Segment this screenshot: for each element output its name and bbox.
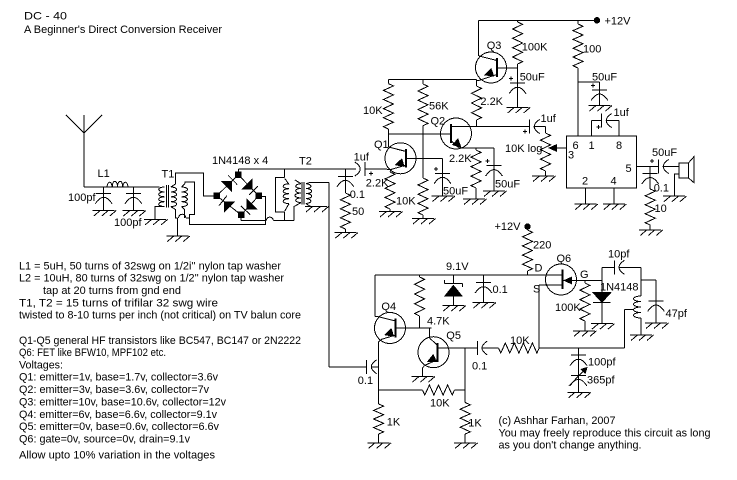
diode D2 <box>243 180 258 195</box>
capacitor 50uF Q3 base <box>509 68 526 108</box>
transistor Q6 JFET <box>546 264 578 295</box>
svg-text:2.2K: 2.2K <box>449 153 472 165</box>
wire decoupling branch <box>578 81 600 83</box>
wire L2 to ground <box>640 318 642 335</box>
wire T1 secA bottom center tap <box>171 207 178 236</box>
ground <box>507 108 530 114</box>
label 10K vfo <box>510 335 530 347</box>
notes text block <box>19 260 301 461</box>
ground <box>573 331 597 337</box>
wire cap to pin8 <box>606 121 619 136</box>
svg-text:L1: L1 <box>98 168 110 180</box>
svg-text:56K: 56K <box>429 101 449 113</box>
resistor 2.2K Q3 emitter <box>472 86 482 127</box>
capacitor 47pf <box>648 301 665 323</box>
label 10pf <box>608 249 630 261</box>
svg-text:Q5: emitter=0v, base=0.6v, col: Q5: emitter=0v, base=0.6v, collector=6.6… <box>19 421 219 433</box>
svg-text:0.1: 0.1 <box>350 189 365 201</box>
svg-text:G: G <box>580 269 589 281</box>
wire pin4 ground <box>613 188 615 204</box>
wire Q2 collector <box>468 126 530 128</box>
wire T2 box <box>275 177 284 220</box>
svg-text:Q6: FET like BFW10, MPF102 etc: Q6: FET like BFW10, MPF102 etc. <box>19 347 166 359</box>
wire T2 windingB bottom <box>294 203 301 221</box>
wire Q6 source <box>539 285 546 348</box>
svg-text:1uf: 1uf <box>614 107 630 119</box>
svg-text:100pf: 100pf <box>68 192 96 204</box>
transformer T2 core <box>302 182 304 205</box>
resistor 56K <box>418 79 428 178</box>
svg-text:Q1: Q1 <box>374 139 389 151</box>
svg-text:4.7K: 4.7K <box>427 316 450 328</box>
wire Q1 collector up <box>387 129 389 147</box>
diode 1N4148 vfo <box>593 281 610 324</box>
ground <box>166 236 190 242</box>
ground <box>483 191 507 197</box>
resistor 100K gate <box>580 281 590 331</box>
ground <box>663 196 687 202</box>
label 50uF Q2 <box>495 179 520 191</box>
wire pin1 up <box>592 121 602 136</box>
label 100pf #1 <box>68 192 96 204</box>
wire T1 secA top to bridge left <box>171 173 216 196</box>
svg-text:twisted to 8-10 turns per inch: twisted to 8-10 turns per inch (not crit… <box>19 310 301 322</box>
svg-text:9.1V: 9.1V <box>446 261 469 273</box>
transformer T2 winding C <box>306 184 312 204</box>
diode D1 <box>222 176 237 191</box>
capacitor 100pf #1 <box>95 187 112 211</box>
ground <box>645 323 669 329</box>
svg-text:1N4148: 1N4148 <box>600 282 639 294</box>
wire T2 windingA bottom <box>285 204 289 211</box>
svg-text:10pf: 10pf <box>608 249 630 261</box>
label 0.1 Q5 base <box>472 361 487 373</box>
svg-text:50uF: 50uF <box>443 186 468 198</box>
label S <box>533 284 540 296</box>
pin 4 label <box>611 176 617 188</box>
svg-text:50uF: 50uF <box>592 72 617 84</box>
resistor 1K Q5 <box>460 403 470 443</box>
label Q6 <box>557 253 572 265</box>
label +12V vfo <box>495 221 522 233</box>
label 100K gate <box>555 302 581 314</box>
label 365pf tuning <box>587 375 615 387</box>
svg-text:1uf: 1uf <box>354 152 370 164</box>
svg-text:T1, T2 = 15 turns of trifilar: T1, T2 = 15 turns of trifilar 32 swg wir… <box>19 297 218 309</box>
svg-text:365pf: 365pf <box>587 375 615 387</box>
label T2 <box>299 156 312 168</box>
resistor 100 <box>573 20 583 68</box>
wire pin2 ground <box>584 188 586 204</box>
label 220 <box>533 240 551 252</box>
wire T2 link top <box>283 169 285 177</box>
wire L2 tap <box>625 310 633 349</box>
svg-text:Q3: Q3 <box>487 40 502 52</box>
wire T1 secB bottom <box>182 207 185 218</box>
label 1uf pins 1-8 <box>614 107 630 119</box>
svg-text:Allow upto 10% variation in th: Allow upto 10% variation in the voltages <box>19 450 216 462</box>
svg-text:+12V: +12V <box>495 221 522 233</box>
variable cap arrow <box>569 368 587 387</box>
svg-text:10K: 10K <box>430 398 450 410</box>
svg-text:1N4148 x 4: 1N4148 x 4 <box>212 155 268 167</box>
svg-text:Q4: emitter=6v, base=6.6v, col: Q4: emitter=6v, base=6.6v, collector=9.1… <box>19 409 217 421</box>
transformer T1 secondary winding B <box>182 187 188 207</box>
capacitor 50uF output <box>650 159 669 174</box>
svg-text:Q6: gate=0v, source=0v, drain=: Q6: gate=0v, source=0v, drain=9.1v <box>19 434 190 446</box>
svg-text:4: 4 <box>611 176 617 188</box>
resistor 220 <box>523 227 533 275</box>
label 4.7K <box>427 316 450 328</box>
label G <box>580 269 589 281</box>
label 100K Q3 <box>522 42 548 54</box>
svg-text:3: 3 <box>568 150 574 162</box>
pot wiper arrow <box>549 145 566 151</box>
svg-text:0.1: 0.1 <box>472 361 487 373</box>
capacitor 50uF Q1 base <box>434 167 451 196</box>
svg-text:1: 1 <box>589 140 595 152</box>
svg-text:You may freely reproduce this: You may freely reproduce this circuit as… <box>499 427 711 439</box>
wire T1 secB top loop <box>182 182 195 218</box>
svg-text:2.2K: 2.2K <box>480 96 503 108</box>
inductor L2 <box>634 296 641 318</box>
ground <box>603 204 627 210</box>
wire bridge edge top-right <box>238 175 258 196</box>
svg-text:Voltages:: Voltages: <box>19 359 63 371</box>
ground <box>412 219 436 225</box>
wire bias rail <box>388 78 476 80</box>
transformer T1 primary winding <box>159 187 165 207</box>
resistor 50 <box>340 193 350 233</box>
label Q4 <box>381 301 396 313</box>
ground <box>574 204 598 210</box>
wire pin5 out <box>637 166 659 168</box>
wire Q4 base <box>396 327 432 329</box>
wire 1uf to pot <box>534 127 545 134</box>
svg-text:+12V: +12V <box>605 16 632 28</box>
capacitor 0.1 Q5 base <box>465 341 498 355</box>
label 100 <box>583 44 601 56</box>
svg-text:as you don't change anything.: as you don't change anything. <box>499 440 642 452</box>
pin 6 label <box>573 140 579 152</box>
svg-text:50uF: 50uF <box>652 147 677 159</box>
node bridge left <box>214 193 220 199</box>
ground <box>454 443 478 449</box>
pin 2 label <box>582 176 588 188</box>
pin 5 label <box>626 163 632 175</box>
wire T2 windingA top <box>285 179 289 185</box>
label 50uF Q1 <box>443 186 468 198</box>
svg-text:10K: 10K <box>363 105 383 117</box>
wire bridge edge right-bottom <box>241 196 258 215</box>
wire antenna to T1 <box>84 186 160 188</box>
svg-text:Q3: emitter=10v, base=10.6v, c: Q3: emitter=10v, base=10.6v, collector=1… <box>19 396 226 408</box>
wire speaker ground <box>675 174 679 196</box>
ground <box>144 219 168 225</box>
ground <box>334 233 358 239</box>
ground <box>305 207 329 213</box>
transistor Q1 <box>385 143 416 174</box>
wire Q4 collector <box>375 275 377 317</box>
svg-text:100K: 100K <box>555 302 581 314</box>
wire T2 windingC bottom <box>306 204 311 207</box>
svg-text:DC - 40: DC - 40 <box>24 11 67 23</box>
transistor Q4 <box>375 313 406 344</box>
wire Q6 gate <box>577 280 602 282</box>
wire 50uF to speaker <box>663 166 679 168</box>
zener diode 9.1V <box>444 275 462 306</box>
capacitor 0.1 input <box>337 169 354 193</box>
label +12V <box>605 16 632 28</box>
label 0.1 output <box>654 183 669 195</box>
wire 1uf to Q1 emitter <box>365 168 392 170</box>
capacitor 1uf pins 1-8 <box>597 114 612 129</box>
capacitor 1uf input <box>355 162 373 176</box>
pin 3 label <box>568 150 574 162</box>
ground <box>432 196 456 202</box>
svg-text:5: 5 <box>626 163 632 175</box>
svg-text:T2: T2 <box>299 156 312 168</box>
node +12V vfo <box>524 223 530 229</box>
svg-text:L1 = 5uH, 50 turns of 32swg on: L1 = 5uH, 50 turns of 32swg on 1/2i'' ny… <box>19 260 281 272</box>
transformer T2 winding B <box>295 180 301 203</box>
label L1 <box>98 168 110 180</box>
svg-text:0.1: 0.1 <box>493 284 508 296</box>
resistor 10K feedback <box>379 385 466 395</box>
ground <box>591 324 615 330</box>
svg-text:A Beginner's Direct Conversion: A Beginner's Direct Conversion Receiver <box>24 24 222 36</box>
capacitor 50uF Q2 emitter <box>486 148 503 191</box>
ground <box>412 377 436 383</box>
capacitor 1uf Q2 out <box>523 120 540 134</box>
resistor 100K Q3 <box>513 20 523 68</box>
label 50 <box>352 206 364 218</box>
ground <box>442 306 466 312</box>
label 10K feedback <box>430 398 450 410</box>
capacitor 365pf tuning <box>570 375 587 392</box>
wire 9.1V rail <box>375 274 562 276</box>
ground <box>630 335 654 341</box>
wire Q3 base <box>497 67 518 69</box>
svg-text:220: 220 <box>533 240 551 252</box>
svg-text:T1: T1 <box>162 169 175 181</box>
wire Q5 emitter <box>423 366 425 377</box>
svg-text:8: 8 <box>616 140 622 152</box>
ground <box>589 106 613 112</box>
svg-text:Q1: emitter=1v, base=1.7v, col: Q1: emitter=1v, base=1.7v, collector=3.6… <box>19 372 218 384</box>
label 10 <box>655 203 667 215</box>
resistor 10K vfo <box>499 343 540 353</box>
wire bridge bottom to T2 <box>241 215 294 221</box>
ground <box>122 211 145 217</box>
ground <box>463 199 487 205</box>
wire hop <box>179 214 190 218</box>
resistor 1K Q4 <box>374 404 384 443</box>
ground <box>93 211 117 217</box>
label 2.2K Q1 <box>366 178 389 190</box>
label Q1 <box>374 139 389 151</box>
ground <box>473 303 497 309</box>
label 50uF output <box>652 147 677 159</box>
svg-text:D: D <box>535 263 543 275</box>
label 1uf input <box>354 152 370 164</box>
title text <box>24 11 222 37</box>
label 0.1 rail <box>493 284 508 296</box>
label 1K Q4 <box>387 417 401 429</box>
svg-text:Q4: Q4 <box>381 301 396 313</box>
diode D4 <box>219 196 234 212</box>
node bridge top <box>235 172 241 178</box>
svg-text:50: 50 <box>352 206 364 218</box>
svg-text:10K log: 10K log <box>505 143 542 155</box>
label 1N4148 x 4 <box>212 155 268 167</box>
wire bridge top to audio takeoff <box>238 169 356 175</box>
pin 1 label <box>589 140 595 152</box>
capacitor 100pf tuning <box>570 348 587 375</box>
label Q3 <box>487 40 502 52</box>
transistor Q5 <box>418 337 449 368</box>
svg-text:1uf: 1uf <box>541 113 557 125</box>
label 1uf Q2 out <box>541 113 557 125</box>
svg-text:2.2K: 2.2K <box>366 178 389 190</box>
transformer T1 core <box>167 185 169 208</box>
svg-text:10K: 10K <box>396 196 416 208</box>
wire T2 windingC top to VFO <box>306 183 329 367</box>
wire +12V rail <box>478 19 597 21</box>
label 100pf #2 <box>114 217 142 229</box>
node bridge bottom <box>238 212 244 218</box>
wire Q1 emitter down <box>390 169 392 172</box>
capacitor 0.1 rail bypass <box>475 275 492 303</box>
wire bridge edge left-top <box>217 175 239 196</box>
wire gate to 10pf <box>602 267 615 280</box>
resistor 2.2K Q1 emitter <box>385 172 395 212</box>
wire Q5 collector <box>429 328 431 338</box>
ground <box>532 176 556 182</box>
diode D3 <box>241 199 256 214</box>
svg-text:100: 100 <box>583 44 601 56</box>
label 10K divider <box>396 196 416 208</box>
transformer T1 secondary winding A <box>171 187 177 207</box>
resistor 4.7K <box>415 275 425 328</box>
resistor 10K Q1 load <box>383 79 393 129</box>
wire Q3 emitter <box>477 79 480 86</box>
label 100pf tuning <box>588 357 616 369</box>
ground <box>568 392 592 398</box>
ground <box>639 230 663 236</box>
svg-text:Q2: emitter=3v, base=3.6v, col: Q2: emitter=3v, base=3.6v, collector=7v <box>19 384 209 396</box>
copyright text block <box>499 415 711 452</box>
wire 10pf to tank <box>619 267 641 296</box>
label D <box>535 263 543 275</box>
label 56K <box>429 101 449 113</box>
op-amp U1 LM386 box <box>567 136 637 188</box>
transistor Q2 <box>441 118 472 149</box>
svg-text:Q5: Q5 <box>446 330 461 342</box>
label Q2 <box>431 116 446 128</box>
svg-text:2: 2 <box>582 176 588 188</box>
speaker <box>679 157 694 183</box>
label 1K Q5 <box>468 418 482 430</box>
node +12V <box>594 17 600 23</box>
svg-text:Q2: Q2 <box>431 116 446 128</box>
label 10K Q1 load <box>363 105 383 117</box>
svg-text:1K: 1K <box>468 418 482 430</box>
svg-text:Q6: Q6 <box>557 253 572 265</box>
resistor 10 <box>645 189 655 230</box>
wire Q2 emitter <box>459 147 494 149</box>
label Q5 <box>446 330 461 342</box>
wire Q4 emitter down <box>379 340 381 405</box>
capacitor 10pf <box>614 260 624 274</box>
wire Q1 collector to Q2 base <box>388 133 451 135</box>
wire T1 primary to ground <box>155 207 164 220</box>
resistor 10K divider <box>418 178 428 219</box>
capacitor 0.1 vfo out <box>329 360 379 374</box>
svg-text:47pf: 47pf <box>666 308 688 320</box>
label 50uF decoupling <box>592 72 617 84</box>
svg-text:50uF: 50uF <box>495 179 520 191</box>
ground <box>379 212 403 218</box>
capacitor 50uF decoupling <box>591 82 608 106</box>
wire Q5 bias down <box>464 348 466 403</box>
wire bridge edge bottom-left <box>217 196 241 215</box>
label 47pf <box>666 308 688 320</box>
label 9.1V <box>446 261 469 273</box>
label 10K log <box>505 143 542 155</box>
wire Q5 base <box>438 347 466 349</box>
node bridge right <box>255 193 261 199</box>
label 2.2K Q2 <box>449 153 472 165</box>
antenna <box>66 115 102 187</box>
label 0.1 <box>350 189 365 201</box>
svg-text:1K: 1K <box>387 417 401 429</box>
wire Q1 base right <box>406 158 442 173</box>
pin 8 label <box>616 140 622 152</box>
wire source line <box>539 347 625 349</box>
svg-text:100pf: 100pf <box>588 357 616 369</box>
potentiometer 10K log <box>541 133 551 176</box>
label 2.2K Q3 <box>480 96 503 108</box>
svg-text:100K: 100K <box>522 42 548 54</box>
svg-text:Q1-Q5 general HF transistors l: Q1-Q5 general HF transistors like BC547,… <box>19 335 301 347</box>
transistor Q3 <box>476 52 507 83</box>
svg-text:(c) Ashhar Farhan, 2007: (c) Ashhar Farhan, 2007 <box>499 415 616 427</box>
transformer T2 winding A <box>283 184 289 204</box>
label T1 <box>162 169 175 181</box>
wire Q3 collector up <box>477 20 479 56</box>
label 50uF Q3 <box>520 72 545 84</box>
svg-text:100pf: 100pf <box>114 217 142 229</box>
wire tank to 47pf <box>641 280 656 301</box>
resistor 2.2K Q2 emitter <box>471 148 481 199</box>
wire 100 to pin6 <box>577 68 579 136</box>
svg-text:tap at 20 turns from gnd end: tap at 20 turns from gnd end <box>43 285 181 297</box>
svg-text:10: 10 <box>655 203 667 215</box>
svg-text:0.1: 0.1 <box>358 375 373 387</box>
inductor L1 <box>107 181 128 187</box>
label 0.1 vfo out <box>358 375 373 387</box>
capacitor 0.1 output <box>642 167 659 190</box>
wire T1 secB to bridge right <box>189 196 265 224</box>
svg-text:50uF: 50uF <box>520 72 545 84</box>
svg-text:0.1: 0.1 <box>654 183 669 195</box>
svg-text:L2 = 10uH, 80 turns of 32swg o: L2 = 10uH, 80 turns of 32swg on 1/2'' ny… <box>19 273 284 285</box>
capacitor 100pf #2 <box>125 187 142 211</box>
svg-text:10K: 10K <box>510 335 530 347</box>
label 1N4148 vfo <box>600 282 639 294</box>
ground <box>368 443 392 449</box>
